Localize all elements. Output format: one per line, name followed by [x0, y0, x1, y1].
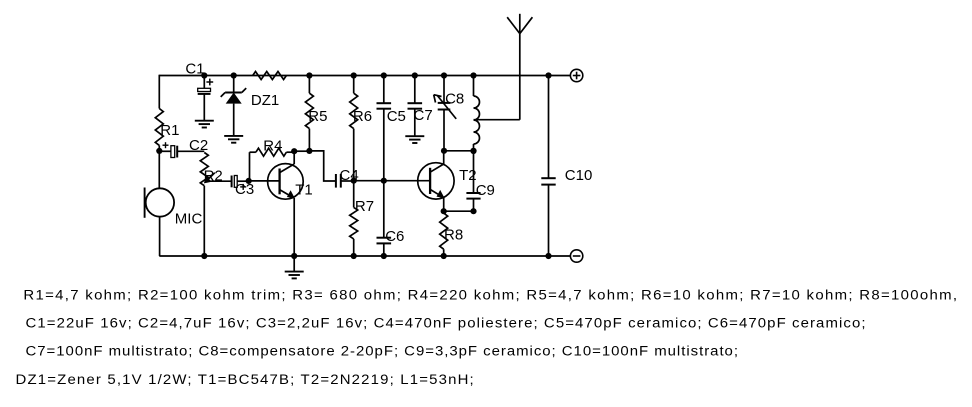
wire R4 to collector node: [286, 151, 294, 152]
capacitor C4 (polyester): [336, 167, 359, 188]
capacitor C10: [541, 167, 592, 185]
capacitor C2 (electrolytic): [159, 137, 208, 157]
svg-text:MIC: MIC: [175, 210, 203, 227]
ground under C1: [195, 121, 214, 128]
junction C9 top: [470, 148, 476, 154]
wire C8 bottom: [443, 110, 445, 151]
ground below rail: [285, 256, 304, 278]
wire C5 bottom: [383, 109, 385, 181]
junction R7 rail: [351, 253, 357, 259]
wire R5 bottom: [308, 129, 310, 151]
wire L1 bottom: [473, 144, 475, 151]
capacitor C7: [408, 103, 433, 124]
wire R4 left leg: [250, 152, 256, 181]
junction C6 rail: [381, 253, 387, 259]
svg-text:C8: C8: [445, 91, 464, 108]
wire T1 emitter: [293, 198, 295, 256]
capacitor C8 (variable): [434, 91, 465, 119]
ground under DZ1: [224, 136, 243, 143]
wire R7 bottom: [353, 239, 355, 256]
wire C10 bottom: [548, 185, 550, 256]
junction DZ1 top: [231, 72, 237, 78]
svg-text:C5: C5: [387, 108, 406, 125]
capacitor C6: [377, 228, 405, 245]
wire C5 top: [383, 76, 385, 104]
svg-text:T1: T1: [295, 182, 313, 199]
resistor R2 (trimmer): [200, 153, 222, 186]
wire R5 top: [308, 76, 310, 94]
resistor R8: [440, 213, 463, 249]
resistor R3 (series, unlabeled): [253, 72, 287, 80]
junction C10 top rail: [545, 72, 551, 78]
terminal plus (+V): [570, 69, 582, 81]
transistor T1 (BC547B): [249, 164, 313, 200]
node A (R1/C2/MIC junction): [156, 148, 162, 154]
wire T2 collector: [443, 151, 445, 164]
wire T1 collector: [293, 151, 295, 164]
wire C8 top: [443, 76, 445, 103]
wire C9 top: [473, 151, 475, 193]
microphone MIC: [145, 188, 203, 228]
wire C6 top: [383, 181, 385, 238]
capacitor C9: [466, 182, 494, 199]
wire C3 to node B: [237, 180, 248, 182]
wire C7 top: [414, 76, 416, 104]
wire DZ1 top: [233, 76, 235, 93]
wire MIC to bottom rail: [159, 217, 161, 256]
wire top rail: [159, 75, 570, 77]
wire DZ1 bottom: [233, 104, 235, 136]
trimmer wiper arrow R2: [204, 173, 215, 184]
wire wiper to C3: [206, 180, 232, 182]
junction C7 rail: [412, 72, 418, 78]
wire L1 top: [473, 76, 475, 97]
wire R6 bottom: [353, 129, 355, 181]
wire C1 bottom: [203, 94, 205, 121]
svg-text:C7=100nF multistrato; C8=compe: C7=100nF multistrato; C8=compensatore 2-…: [25, 344, 738, 359]
svg-text:R1: R1: [160, 122, 179, 139]
junction C8 bottom node: [441, 148, 447, 154]
wire antenna tap: [474, 119, 520, 121]
junction C10 bottom rail: [545, 253, 551, 259]
wire C8 node to L1 node: [444, 150, 474, 152]
svg-text:C7: C7: [414, 107, 433, 124]
wire node A to MIC: [158, 151, 160, 189]
junction R8 rail: [441, 253, 447, 259]
wire C1 top: [203, 76, 205, 89]
junction T1 emitter rail: [291, 253, 297, 259]
node B (C3/R4/T1 base): [246, 178, 252, 184]
svg-text:C9: C9: [476, 182, 495, 199]
ground under C7: [405, 136, 424, 143]
wire C4 to node C: [341, 180, 354, 182]
junction T1 collector node: [291, 148, 297, 154]
junction C5 rail: [381, 72, 387, 78]
junction L1 bottom node: [470, 148, 476, 154]
wire C2 to R2: [177, 150, 204, 152]
svg-text:C6: C6: [385, 228, 404, 245]
svg-text:C10: C10: [565, 167, 593, 184]
svg-text:R4: R4: [263, 137, 282, 154]
wire R6 top: [353, 76, 355, 94]
junction T2 emitter node: [441, 208, 447, 214]
junction L1 rail: [470, 72, 476, 78]
svg-text:R8: R8: [444, 227, 463, 244]
wire node C to T2 base: [354, 180, 430, 182]
transistor T2 (2N2219): [418, 163, 477, 199]
wire C6 bottom: [383, 243, 385, 256]
svg-text:R6: R6: [353, 108, 372, 125]
junction C5/C6 node: [381, 178, 387, 184]
capacitor C5: [377, 103, 406, 125]
junction C9 bottom: [470, 208, 476, 214]
node C (C4/R6/R7/C5 junction): [351, 178, 357, 184]
svg-text:C1=22uF 16v; C2=4,7uF 16v; C3=: C1=22uF 16v; C2=4,7uF 16v; C3=2,2uF 16v;…: [25, 316, 865, 331]
wire R1 to node: [158, 145, 160, 151]
resistor R1: [155, 109, 179, 146]
resistor R7: [350, 198, 374, 239]
svg-text:R5: R5: [308, 108, 327, 125]
junction C1 top: [201, 72, 207, 78]
antenna: [507, 14, 532, 120]
junction R2 bottom rail: [201, 253, 207, 259]
resistor R5: [305, 93, 327, 128]
zener diode DZ1: [221, 88, 280, 109]
svg-text:C3: C3: [235, 181, 254, 198]
wire C7 bottom: [414, 109, 416, 137]
svg-text:C1: C1: [185, 60, 204, 77]
wire left branch upper: [158, 75, 160, 109]
value list line 2: [25, 316, 865, 331]
junction C8 rail: [441, 72, 447, 78]
wire T2 emitter: [443, 198, 445, 212]
svg-text:R7: R7: [355, 198, 374, 215]
inductor L1: [474, 96, 480, 144]
terminal minus (0V): [570, 250, 582, 262]
wire R7 top: [353, 181, 355, 208]
value list line 4: [15, 372, 473, 387]
wire emitter to C9 bottom: [444, 210, 474, 212]
wire collector to R5 node: [294, 150, 309, 152]
resistor R4: [256, 137, 287, 156]
svg-text:DZ1=Zener 5,1V 1/2W; T1=BC547B: DZ1=Zener 5,1V 1/2W; T1=BC547B; T2=2N221…: [15, 372, 473, 387]
junction R5 bottom: [306, 148, 312, 154]
value list line 3: [25, 344, 738, 359]
wire R8 bottom: [443, 249, 445, 256]
wire C9 bottom: [473, 199, 475, 212]
capacitor C1 (electrolytic): [185, 60, 213, 94]
capacitor C3 (electrolytic): [232, 176, 255, 199]
wire node to C4: [309, 151, 336, 181]
junction R5 rail: [306, 72, 312, 78]
svg-text:R1=4,7 kohm; R2=100 kohm trim;: R1=4,7 kohm; R2=100 kohm trim; R3= 680 o…: [23, 288, 957, 303]
wire R2 bottom: [203, 186, 205, 256]
wire bottom rail: [159, 255, 570, 257]
wire C10 top: [548, 76, 550, 179]
junction R6 rail: [351, 72, 357, 78]
svg-text:DZ1: DZ1: [251, 92, 279, 109]
resistor R6: [350, 93, 372, 128]
value list line 1: [23, 288, 957, 303]
